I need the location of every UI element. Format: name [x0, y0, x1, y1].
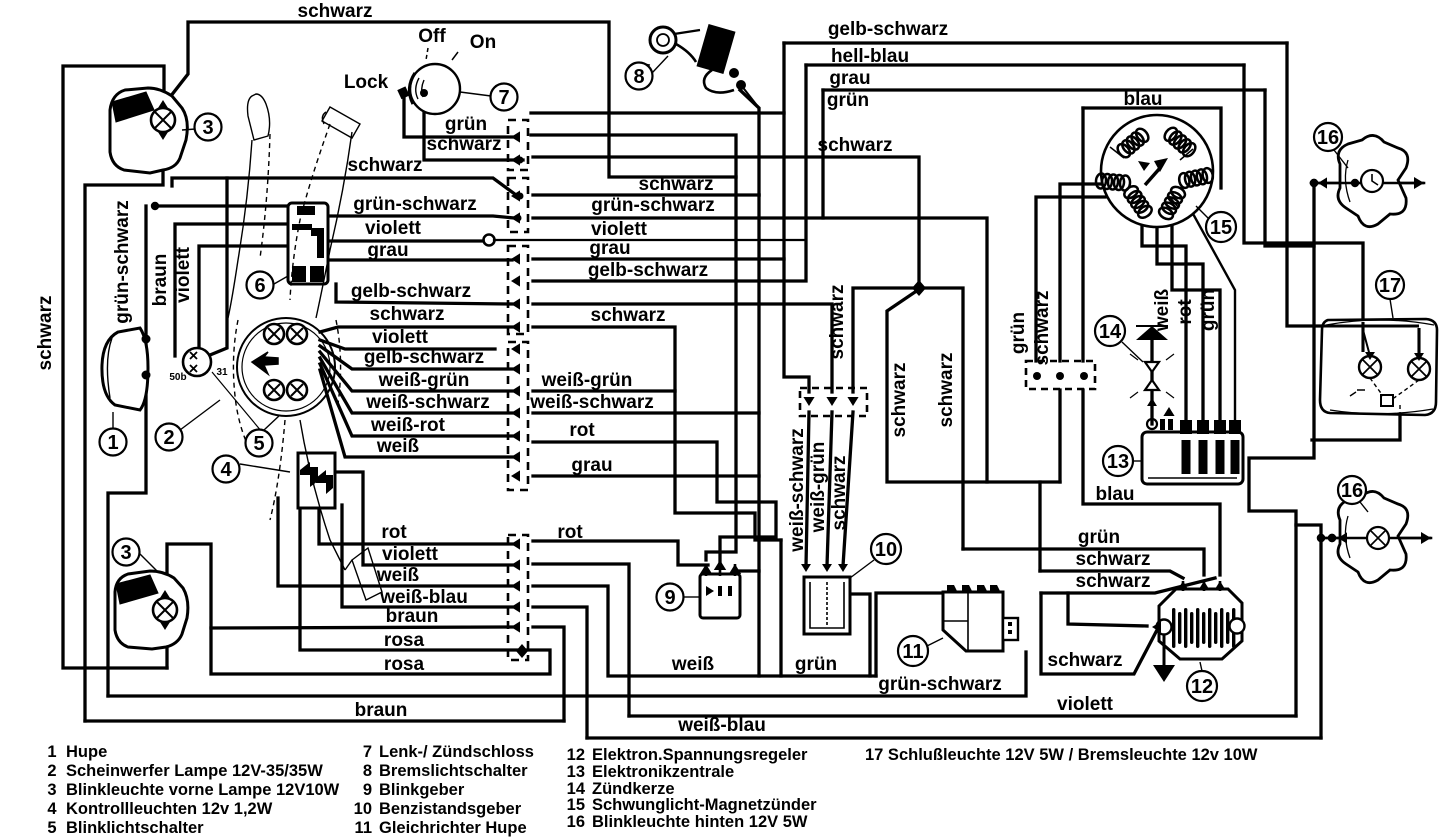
node junction dots right	[1310, 179, 1318, 187]
electronic central unit 13	[1142, 432, 1243, 484]
svg-text:Lenk-/ Zündschloss: Lenk-/ Zündschloss	[379, 743, 534, 761]
svg-text:gelb-schwarz: gelb-schwarz	[588, 260, 708, 281]
svg-text:grün: grün	[1198, 289, 1219, 331]
svg-text:schwarz: schwarz	[1048, 650, 1123, 671]
wire violett from control lights	[335, 472, 512, 565]
svg-text:5: 5	[47, 819, 56, 837]
svg-text:11: 11	[355, 819, 372, 837]
wire indicator stair down	[1249, 183, 1314, 716]
wire weiß net lower	[533, 586, 876, 676]
switch block 6	[288, 203, 328, 284]
wire feed to pilot lamp	[210, 178, 227, 355]
svg-text:gelb-schwarz: gelb-schwarz	[828, 19, 948, 40]
handlebar sketch	[228, 94, 382, 600]
connector fuel gauge dashed	[800, 388, 867, 416]
wire link 525	[1296, 525, 1321, 738]
wire weiß-blau right from connector	[533, 607, 587, 738]
svg-text:14: 14	[1099, 321, 1122, 343]
wire hell-blau to tail lamp	[1244, 65, 1363, 352]
callout 5	[246, 430, 273, 457]
svg-text:15: 15	[567, 796, 585, 814]
front turn indicator 3 bottom	[115, 571, 188, 649]
wire magneto out schwarz	[1060, 184, 1104, 361]
svg-text:17 Schlußleuchte 12V 5W / Brem: 17 Schlußleuchte 12V 5W / Bremsleuchte 1…	[865, 746, 1258, 764]
wire ignition schwarz to connector	[424, 97, 523, 160]
svg-text:17: 17	[1379, 275, 1401, 297]
wire violett from headlamp cluster	[320, 340, 495, 349]
wire schwarz headlamp to connector	[172, 178, 516, 195]
wire violett right of connector	[494, 239, 806, 241]
svg-text:Kontrollleuchten 12v 1,2W: Kontrollleuchten 12v 1,2W	[66, 800, 273, 818]
node grün-schwarz open terminal	[151, 202, 159, 210]
svg-text:weiß-schwarz: weiß-schwarz	[365, 392, 490, 413]
svg-text:6: 6	[254, 275, 265, 297]
wire weiß-blau long bottom	[587, 736, 1321, 739]
svg-text:grün: grün	[827, 90, 869, 111]
svg-text:12: 12	[567, 746, 585, 764]
wire rot right of connector	[533, 541, 708, 565]
wire gelb-schwarz to brake lamp	[1287, 43, 1419, 353]
regulator ground arrow	[1163, 635, 1166, 666]
wire grün-schwarz long bottom	[108, 652, 1026, 696]
svg-text:5: 5	[253, 433, 264, 455]
svg-text:schwarz: schwarz	[829, 456, 850, 531]
wire ignition grün to connector	[404, 97, 512, 137]
svg-text:weiß-grün: weiß-grün	[378, 370, 470, 391]
wire schwarz diamond diagonal	[887, 292, 1060, 482]
svg-text:schwarz: schwarz	[427, 134, 502, 155]
callout 14	[1095, 316, 1125, 346]
svg-text:braun: braun	[150, 254, 171, 307]
svg-text:violett: violett	[1057, 694, 1114, 715]
callout 9	[657, 584, 684, 611]
svg-text:Elektron.Spannungsregeler: Elektron.Spannungsregeler	[592, 746, 808, 764]
svg-text:braun: braun	[386, 606, 439, 627]
wire braun vertical to block6	[175, 224, 288, 356]
wire brake switch drop	[740, 90, 759, 195]
wire schwarz to rectifier 2	[1041, 578, 1215, 593]
wire fuel connector drop 1	[806, 412, 809, 566]
wire weiß from control lights	[278, 498, 512, 586]
svg-text:weiß: weiß	[1152, 288, 1173, 332]
wire rear indicator bottom wire	[1321, 537, 1431, 540]
svg-text:1: 1	[47, 743, 56, 761]
wire lamp3 bottom tail	[165, 645, 168, 668]
wire grau top long	[823, 88, 1265, 91]
svg-text:grün-schwarz: grün-schwarz	[878, 674, 1002, 695]
connector arrows	[511, 131, 520, 142]
callout leader lines	[113, 56, 1393, 671]
callout 12	[1187, 671, 1217, 701]
wire schwarz right upper to mid riser	[531, 135, 736, 177]
connector magneto output dashed	[1026, 361, 1095, 389]
wire schwarz diamond branch right	[919, 288, 963, 549]
callout 11	[898, 636, 928, 666]
blinkgeber 9	[700, 574, 740, 618]
svg-text:grün: grün	[1008, 312, 1029, 354]
callout 6	[247, 272, 274, 299]
svg-text:gelb-schwarz: gelb-schwarz	[351, 281, 471, 302]
svg-text:Bremslichtschalter: Bremslichtschalter	[379, 762, 528, 780]
wire gelb-schwarz right lower	[533, 304, 832, 392]
svg-text:grau: grau	[367, 240, 408, 261]
wire violett vertical to pilot lamp	[199, 246, 288, 346]
svg-text:schwarz: schwarz	[348, 155, 423, 176]
wire grau right of connector	[533, 257, 784, 260]
wire grau riser x823	[821, 90, 824, 218]
svg-text:16: 16	[1341, 480, 1363, 502]
wire schwarz right y327	[533, 327, 781, 540]
svg-text:grau: grau	[589, 238, 630, 259]
svg-text:weiß: weiß	[376, 436, 420, 457]
wire riser x1040	[1038, 482, 1041, 571]
svg-text:8: 8	[633, 66, 644, 88]
svg-text:gelb-schwarz: gelb-schwarz	[364, 347, 484, 368]
svg-text:schwarz: schwarz	[370, 304, 445, 325]
svg-text:31: 31	[216, 367, 228, 378]
svg-text:violett: violett	[365, 218, 422, 239]
wire grau to rear indicators	[1265, 90, 1314, 246]
callout 8	[626, 63, 653, 90]
svg-text:rot: rot	[381, 522, 407, 543]
svg-text:schwarz: schwarz	[1032, 291, 1053, 366]
svg-text:3: 3	[202, 117, 213, 139]
svg-text:blau: blau	[1123, 89, 1162, 110]
connector main column dashed blocks	[508, 120, 528, 170]
wire fuel sender right link	[852, 594, 870, 676]
wire weiß-schwarz from headlamp cluster	[320, 358, 512, 413]
wire grau right y476	[533, 474, 759, 477]
headlamp bulbs	[264, 324, 284, 344]
wire rot from control lights	[319, 508, 512, 544]
svg-text:schwarz: schwarz	[298, 1, 373, 22]
wire grün-schwarz right of connector	[533, 218, 987, 482]
svg-text:Schwunglicht-Magnetzünder: Schwunglicht-Magnetzünder	[592, 796, 817, 814]
svg-text:violett: violett	[382, 544, 439, 565]
rear indicator 16 bottom	[1338, 491, 1408, 582]
wire blau loop	[1083, 108, 1221, 188]
wire grün to rectifier	[963, 549, 1204, 575]
wire rosa to connector	[300, 475, 518, 650]
svg-text:13: 13	[1107, 451, 1129, 473]
svg-text:Blinklichtschalter: Blinklichtschalter	[66, 819, 204, 837]
wire blau riser to connector	[1081, 108, 1084, 361]
wire rear indicator top wire	[1311, 182, 1424, 185]
svg-text:weiß: weiß	[376, 565, 420, 586]
svg-text:braun: braun	[355, 700, 408, 721]
wire fuel connector drop 3	[843, 412, 853, 566]
svg-text:On: On	[470, 32, 496, 53]
wire schwarz top right	[533, 157, 919, 288]
svg-text:13: 13	[567, 763, 585, 781]
svg-text:9: 9	[363, 781, 372, 799]
callout 1	[100, 429, 127, 456]
svg-text:7: 7	[498, 87, 509, 109]
control lights block 4	[298, 453, 335, 508]
svg-text:Gleichrichter Hupe: Gleichrichter Hupe	[379, 819, 527, 837]
svg-text:weiß-blau: weiß-blau	[379, 587, 468, 608]
wire grün-schwarz vertical down left	[108, 206, 146, 696]
node violett open terminal	[484, 235, 495, 246]
wire connector schwarz drop	[1058, 390, 1061, 482]
svg-text:violett: violett	[372, 327, 429, 348]
wire lamp3 top tail	[85, 170, 163, 721]
wire braun lower left	[211, 627, 512, 628]
wire gelb-schwarz from headlamp cluster	[320, 346, 512, 369]
wire riser x784	[784, 43, 809, 392]
callout 2	[156, 424, 183, 451]
wire violett right from connector	[533, 564, 629, 716]
svg-text:4: 4	[220, 459, 232, 481]
svg-text:9: 9	[664, 587, 675, 609]
svg-text:schwarz: schwarz	[591, 305, 666, 326]
svg-text:2: 2	[47, 762, 56, 780]
svg-text:15: 15	[1210, 217, 1232, 239]
wire weiß-schwarz right of connector	[533, 411, 759, 414]
svg-text:weiß-grün: weiß-grün	[541, 370, 633, 391]
svg-text:4: 4	[47, 800, 57, 818]
fuel gauge 10	[804, 577, 850, 634]
wire grün-schwarz block6 to connector	[328, 216, 514, 218]
callout 13	[1103, 446, 1133, 476]
svg-text:8: 8	[363, 762, 372, 780]
svg-text:schwarz: schwarz	[35, 296, 56, 371]
svg-text:50b: 50b	[169, 372, 186, 383]
wire grün-schwarz dot to switch block	[155, 204, 288, 207]
svg-text:grün: grün	[795, 654, 837, 675]
svg-text:Elektronikzentrale: Elektronikzentrale	[592, 763, 734, 781]
wire schwarz riser x759 lower	[757, 195, 760, 676]
wire weiß branch to blinkgeber	[734, 569, 759, 572]
callout 17	[1376, 271, 1404, 299]
svg-text:10: 10	[875, 539, 897, 561]
wire gelb-schwarz top long	[784, 41, 1287, 44]
svg-text:grün-schwarz: grün-schwarz	[591, 195, 715, 216]
flywheel magneto 15	[1101, 115, 1213, 227]
svg-text:schwarz: schwarz	[818, 135, 893, 156]
svg-text:hell-blau: hell-blau	[831, 46, 909, 67]
wire magneto out 2	[1157, 225, 1203, 420]
svg-text:rosa: rosa	[384, 654, 425, 675]
callout 3 top	[195, 114, 222, 141]
svg-text:grün: grün	[445, 114, 487, 135]
callout 16 bottom	[1338, 476, 1366, 504]
svg-text:weiß-schwarz: weiß-schwarz	[529, 392, 654, 413]
callout 16 top	[1314, 123, 1342, 151]
svg-text:blau: blau	[1095, 484, 1134, 505]
rear indicator 16 top	[1338, 135, 1408, 226]
headlamp 2 outline	[237, 318, 335, 416]
svg-text:12: 12	[1191, 676, 1213, 698]
wire connector to rectifier T3	[1083, 390, 1220, 575]
wire weiß-rot right of connector	[533, 442, 776, 568]
spark plug 14	[1136, 326, 1168, 340]
svg-text:10: 10	[354, 800, 372, 818]
svg-text:Blinkleuchte hinten 12V 5W: Blinkleuchte hinten 12V 5W	[592, 813, 808, 831]
wire magneto out 4	[1192, 212, 1235, 420]
front turn indicator 3 top	[110, 88, 187, 173]
gleichrichter hupe 11	[943, 592, 1003, 651]
svg-text:7: 7	[363, 743, 372, 761]
svg-text:grau: grau	[571, 455, 612, 476]
svg-text:2: 2	[163, 427, 174, 449]
wire front indicator 3 top feed loop	[63, 66, 167, 668]
wire weiß-grün right of connector	[533, 389, 675, 392]
svg-text:grün: grün	[1078, 527, 1120, 548]
wire violett block6 to terminal	[330, 239, 483, 242]
brake light switch 8	[650, 27, 676, 53]
wire schwarz top from front indicator	[163, 22, 736, 560]
svg-text:3: 3	[47, 781, 56, 799]
wire schwarz to rectifier 1	[1040, 571, 1183, 578]
callout 3 bottom	[113, 539, 140, 566]
regulator 12	[1159, 589, 1242, 659]
wire schwarz inner loop	[1068, 593, 1147, 626]
svg-text:rosa: rosa	[384, 630, 425, 651]
svg-text:grau: grau	[829, 68, 870, 89]
tail light 17	[1320, 319, 1437, 415]
svg-text:Blinkleuchte vorne Lampe 12V10: Blinkleuchte vorne Lampe 12V10W	[66, 781, 340, 799]
svg-text:16: 16	[1317, 127, 1339, 149]
wire braun right from connector	[533, 627, 564, 721]
wire grau block6 to connector	[330, 258, 512, 261]
svg-text:schwarz: schwarz	[1076, 549, 1151, 570]
svg-text:weiß: weiß	[671, 654, 715, 675]
svg-text:Benzistandsgeber: Benzistandsgeber	[379, 800, 522, 818]
wire schwarz diamond to fuel connector	[853, 288, 919, 392]
svg-text:weiß-rot: weiß-rot	[370, 415, 446, 436]
wire weiß-blau from control lights	[342, 505, 512, 607]
wire magneto out grün	[1036, 197, 1105, 361]
svg-text:rot: rot	[569, 420, 595, 441]
svg-text:grün-schwarz: grün-schwarz	[112, 200, 133, 324]
svg-text:Blinkgeber: Blinkgeber	[379, 781, 465, 799]
wire rosa from lamp3 bottom	[167, 544, 550, 674]
callout 10	[871, 534, 901, 564]
callout 4	[213, 456, 240, 483]
svg-text:rot: rot	[557, 522, 583, 543]
svg-text:Off: Off	[418, 26, 446, 47]
svg-text:schwarz: schwarz	[1076, 571, 1151, 592]
wire grün right of connector to riser	[531, 111, 784, 114]
wire weiß from headlamp cluster	[320, 370, 512, 457]
wire magneto out 1	[1142, 220, 1186, 420]
pilot lamp twin symbol	[183, 348, 211, 376]
svg-text:Lock: Lock	[344, 72, 389, 93]
svg-text:weiß-grün: weiß-grün	[808, 442, 829, 534]
wire weiß-grün from headlamp cluster	[320, 352, 512, 391]
svg-text:schwarz: schwarz	[936, 353, 957, 428]
wire gelb-schwarz from block6	[336, 284, 512, 304]
svg-text:violett: violett	[591, 219, 648, 240]
wire weiß-rot from headlamp cluster	[320, 364, 512, 436]
wire magneto out 3	[1172, 220, 1220, 420]
svg-text:weiß-schwarz: weiß-schwarz	[787, 428, 808, 553]
svg-text:Scheinwerfer Lampe 12V-35/35W: Scheinwerfer Lampe 12V-35/35W	[66, 762, 323, 780]
callout 7	[491, 84, 518, 111]
wire gelb-schwarz right to hell-blau riser	[533, 65, 806, 281]
svg-text:16: 16	[567, 813, 585, 831]
node junction diamond	[912, 280, 926, 296]
svg-text:schwarz: schwarz	[639, 174, 714, 195]
wire violett long bottom	[629, 714, 1296, 717]
svg-text:Hupe: Hupe	[66, 743, 107, 761]
headlamp arrow symbol	[252, 352, 278, 374]
svg-text:1: 1	[107, 432, 118, 454]
svg-text:11: 11	[902, 641, 923, 663]
svg-text:weiß-blau: weiß-blau	[677, 715, 766, 736]
wire tail lamp bottom wire	[1312, 405, 1400, 440]
svg-text:violett: violett	[173, 246, 194, 303]
svg-text:schwarz: schwarz	[827, 285, 848, 360]
wire grün fuel sender drop	[779, 540, 782, 676]
ignition switch 7	[410, 64, 460, 114]
wire schwarz from headlamp cluster	[320, 327, 512, 332]
svg-text:rot: rot	[1175, 299, 1196, 325]
wire fuel connector drop 2	[827, 412, 832, 566]
svg-text:schwarz: schwarz	[889, 363, 910, 438]
wire gleichrichter left feed	[876, 593, 943, 676]
wire schwarz loop to regulator ear	[1041, 593, 1157, 674]
callout 15	[1206, 212, 1236, 242]
wire schwarz right of connector	[533, 193, 759, 196]
svg-text:3: 3	[120, 542, 131, 564]
svg-text:grün-schwarz: grün-schwarz	[353, 194, 477, 215]
wire spark plug lead	[1150, 340, 1153, 424]
horn 1	[102, 328, 148, 410]
wire hell-blau top long	[806, 63, 1244, 66]
wire braun long bottom	[85, 719, 564, 722]
